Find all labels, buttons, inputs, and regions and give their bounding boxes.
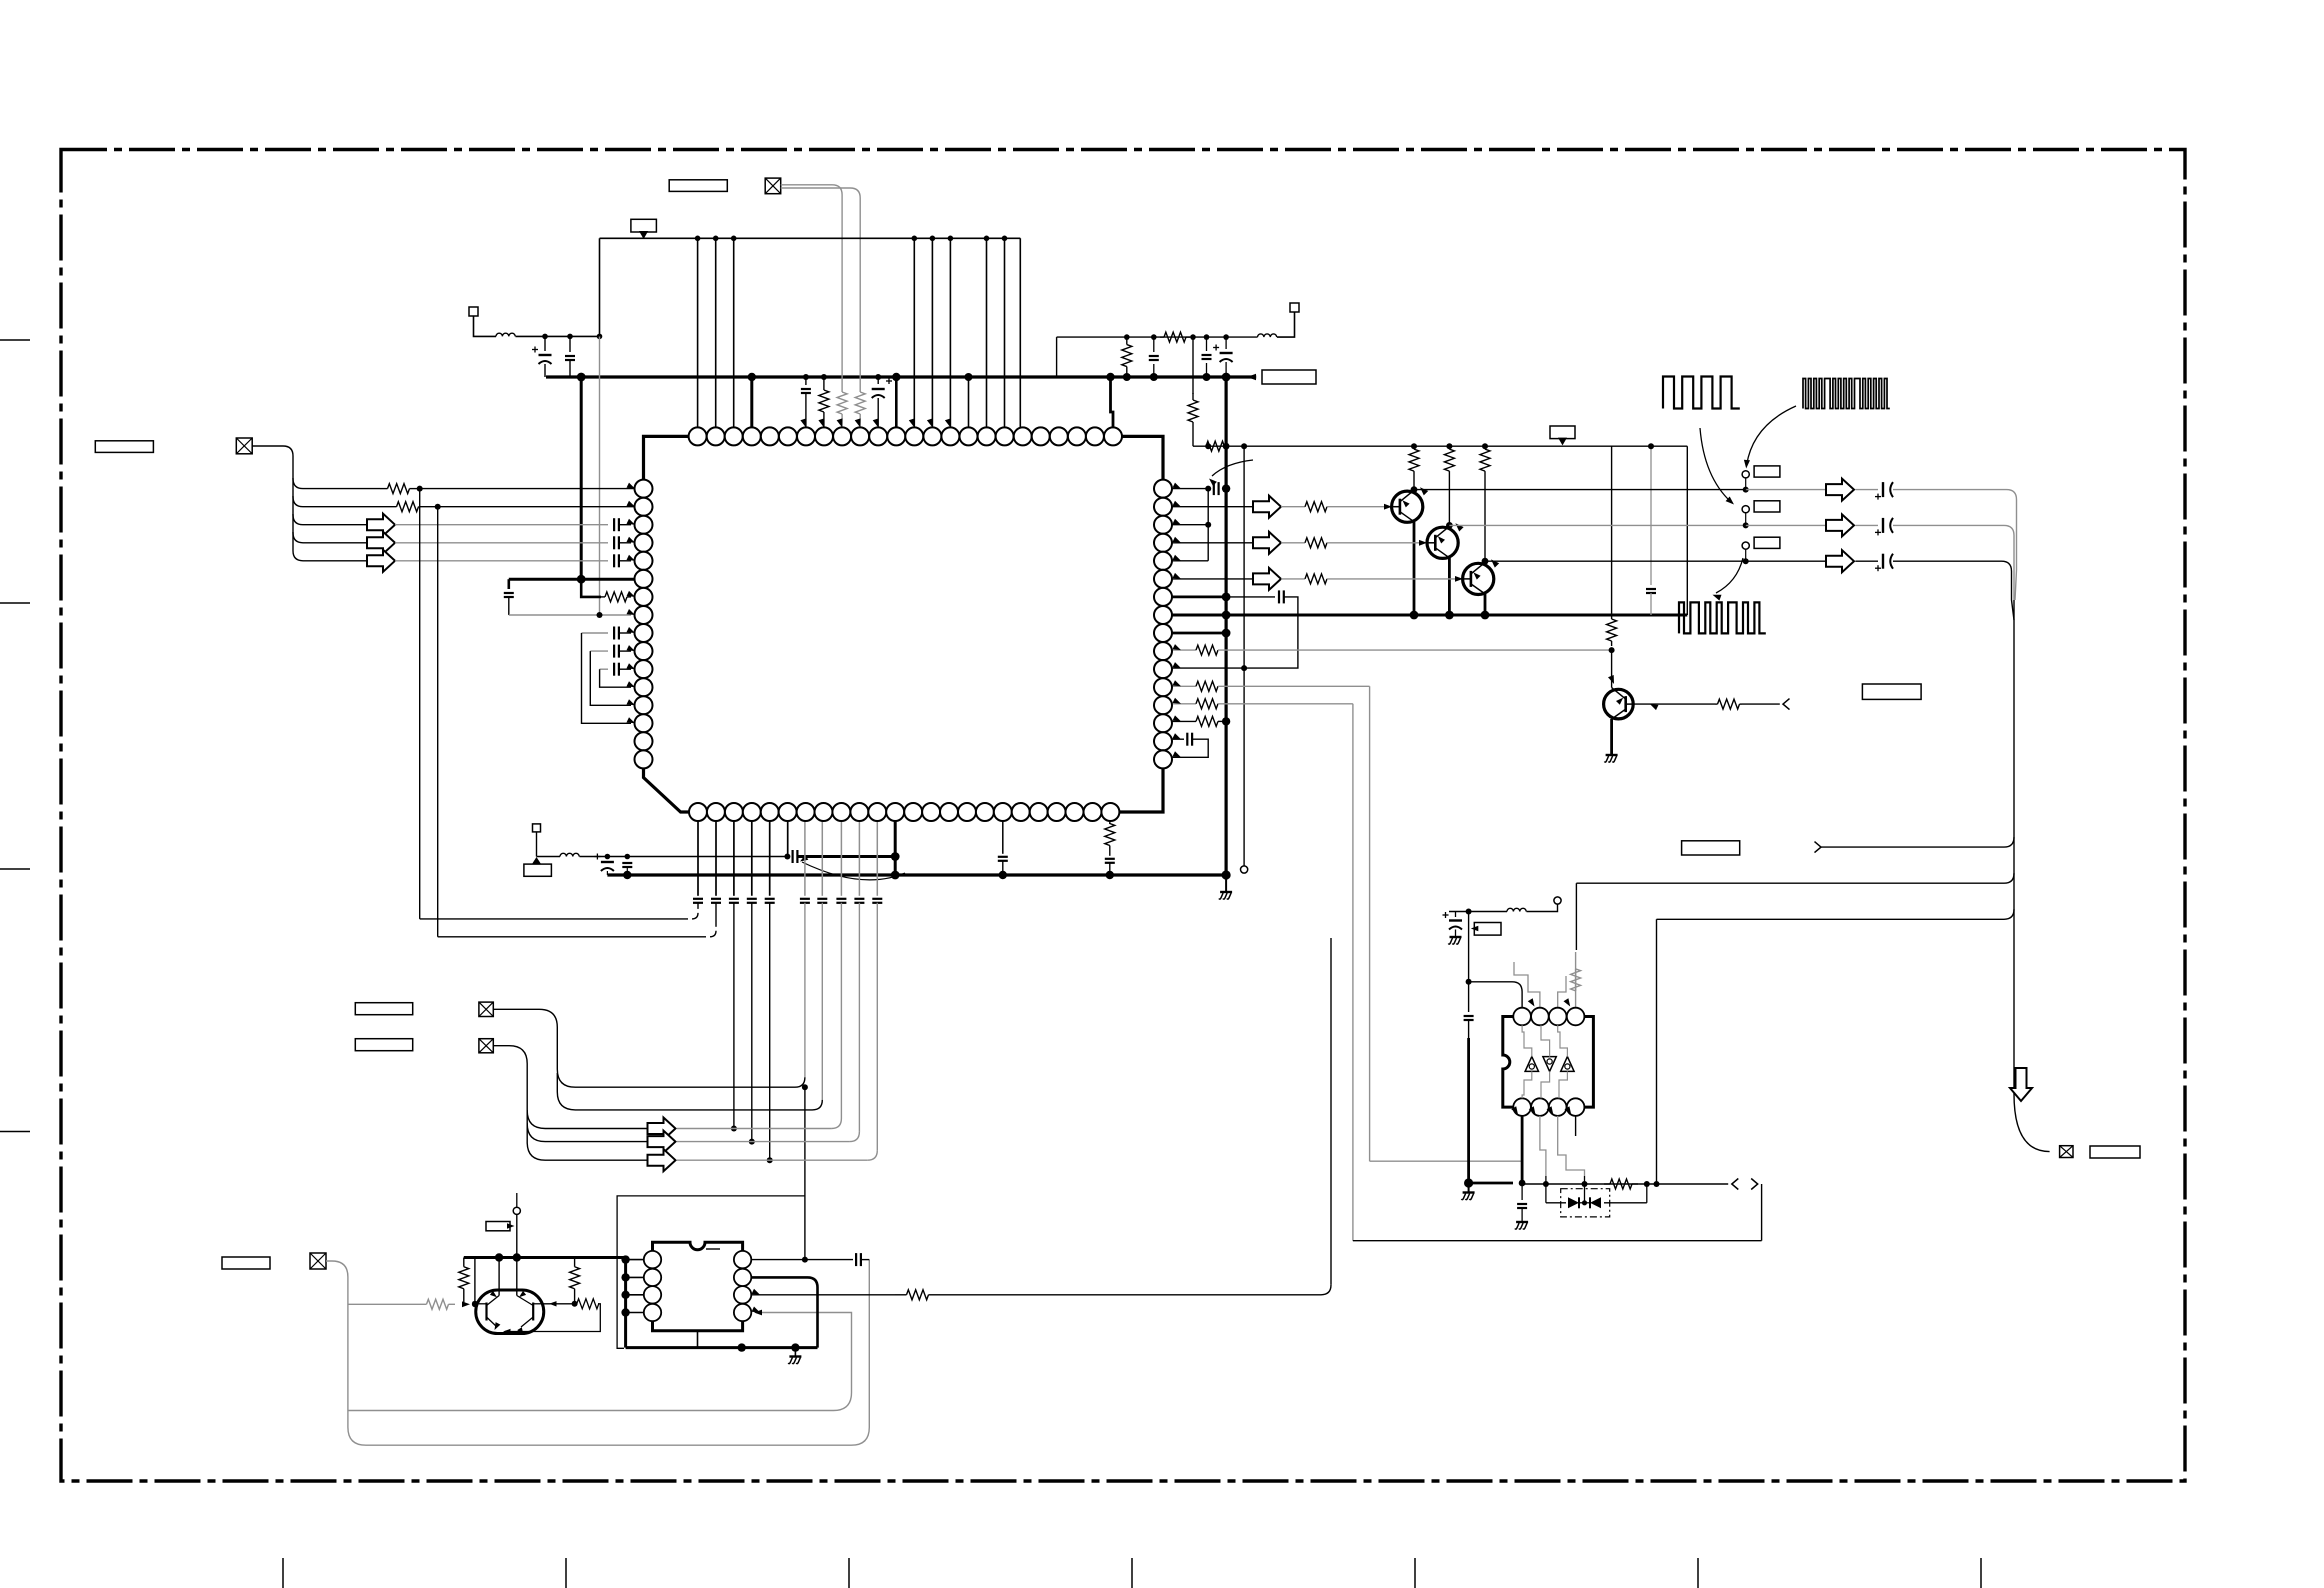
capacitor C35	[1468, 982, 1470, 1012]
wire CN3 vertical to block	[804, 1087, 806, 1259]
resistor R7 p24	[1109, 821, 1111, 824]
resistor R16 pin10	[1172, 649, 1196, 651]
gray wire pin13 down	[1352, 704, 1354, 1241]
wire pin15-16 loop	[1172, 739, 1208, 757]
capacitor C9 pin9 loop	[582, 632, 609, 634]
junction dot rail R12	[1482, 443, 1488, 449]
thick wire C14 to p12	[797, 855, 895, 858]
wire CN2 trunk	[252, 446, 380, 489]
capacitor C6	[613, 536, 615, 549]
wire collector link Q3	[1484, 561, 1486, 562]
label box CN2	[95, 441, 153, 453]
junction dot C2	[567, 334, 573, 340]
thick gnd bus U2	[626, 1346, 818, 1349]
junction dot b5	[767, 1157, 773, 1163]
resistor R21 Q4 base	[1715, 703, 1718, 705]
resistor R25 osc left	[463, 1258, 465, 1267]
label box bus end	[1262, 370, 1316, 384]
inductor L4	[1258, 334, 1277, 337]
capacitor C38	[1153, 337, 1155, 352]
resistor R6 to pin7	[601, 596, 605, 598]
junction dot VREF p1	[695, 236, 701, 242]
label box VM	[1550, 426, 1575, 439]
left margin tick y603	[0, 602, 30, 604]
wire oval to R26 dot	[541, 1303, 575, 1305]
junction dot sig R	[1644, 1181, 1650, 1187]
waveform square FG	[1663, 377, 1740, 409]
label box CN6	[222, 1257, 270, 1269]
junction dot bus s2	[623, 871, 631, 879]
resistor R28	[895, 1294, 907, 1296]
junction dot tr2b	[1150, 373, 1158, 381]
U2 right pin 3	[734, 1286, 751, 1303]
junction dot VREF p13	[912, 236, 918, 242]
resistor R1 on CN1-a	[841, 382, 843, 392]
arrowhead into pin p10	[855, 418, 861, 427]
gray wire x599 down	[599, 336, 601, 615]
wire R12 to collector	[1484, 474, 1486, 561]
capacitor C8	[504, 592, 514, 594]
junction dot out1	[1743, 487, 1749, 493]
wire out2 to cap	[1855, 524, 1878, 526]
capacitor C2	[569, 336, 571, 352]
wire CN4 route	[493, 1046, 647, 1129]
net VREF horizontal	[600, 237, 1021, 239]
chassis ground C34	[1450, 936, 1462, 938]
capacitor C18	[747, 898, 757, 900]
gray wire bottom pin g9 down	[840, 821, 842, 896]
hall bottom pin 2	[1531, 1098, 1549, 1116]
wire diode left up	[1545, 1176, 1547, 1203]
gray wire hall pin2 top	[1514, 962, 1540, 1008]
emitter arrows Q5	[495, 1322, 501, 1330]
junction dot collector Q2	[1446, 522, 1453, 529]
transistor Q3	[1463, 563, 1494, 594]
elbow to connector CN5	[2014, 1094, 2050, 1152]
wire rail to Q4 branch	[1611, 446, 1613, 614]
wire T2 right	[537, 856, 561, 858]
test point circle hall	[1554, 897, 1561, 904]
junction dot VREF p15	[948, 236, 954, 242]
wire fan w2	[293, 478, 380, 507]
wire loop10-13	[590, 651, 631, 705]
connector CN6	[310, 1253, 326, 1269]
hall top pin 2	[1531, 1008, 1549, 1026]
wire top-right left drop	[1056, 337, 1058, 377]
diode D2	[1590, 1197, 1601, 1208]
capacitor C21	[817, 898, 827, 900]
thick pin bus U2	[624, 1258, 627, 1348]
line C run	[1657, 918, 2005, 920]
capacitor C15	[693, 898, 703, 900]
junction dot U2 gnd1	[738, 1343, 746, 1351]
capacitor C7	[613, 554, 615, 567]
bottom margin tick x283	[282, 1558, 284, 1588]
resistor R10	[1413, 446, 1415, 449]
capacitor C12 electrolytic	[606, 857, 608, 860]
open connector A	[1815, 842, 1822, 853]
junction dot R25	[472, 1301, 478, 1307]
U2 left pin 1	[644, 1251, 661, 1268]
junction dot pin14 bus	[1222, 717, 1230, 725]
wire pin6 base	[1172, 578, 1253, 580]
junction dot C27 rail	[1648, 443, 1654, 449]
diode D1	[1568, 1197, 1579, 1208]
terminal T3 square	[1290, 303, 1299, 312]
junction dot out3	[1743, 558, 1749, 564]
thick emitter bus	[1172, 614, 1687, 617]
wire fan w5	[293, 532, 367, 561]
junction dot branch	[472, 1301, 478, 1307]
junction dot C1	[542, 334, 548, 340]
U2 right pin 4	[734, 1304, 751, 1321]
capacitor C3	[805, 377, 807, 385]
wire U2 bottom stub	[697, 1331, 699, 1348]
oscillator shield loop	[617, 1196, 805, 1348]
gray wire line5	[677, 1159, 868, 1161]
wire R27 route	[505, 1304, 600, 1332]
test point stub 3	[1745, 549, 1747, 561]
wire out1 to cap	[1855, 489, 1878, 491]
left margin tick y1131	[0, 1131, 30, 1133]
resistor R11	[1448, 446, 1450, 449]
junction dot diodes	[1582, 1200, 1587, 1205]
junction dot b4	[749, 1139, 755, 1145]
wire U2 left pin 4	[626, 1312, 644, 1314]
transistor Q4	[1604, 689, 1634, 719]
chassis ground C36	[1516, 1221, 1528, 1223]
bottom margin tick x1415	[1414, 1558, 1416, 1588]
resistor R20 Q4	[1611, 614, 1613, 619]
junction dot U2 gnd2	[791, 1343, 799, 1351]
loop wire vertical	[1243, 446, 1245, 668]
U2 right pin 1	[734, 1251, 751, 1268]
block arrow out1	[1826, 479, 1854, 501]
label box CN4	[355, 1039, 412, 1051]
gray wire out1 right	[1893, 489, 2007, 491]
thick wire hall pin1 bottom	[1521, 1116, 1524, 1183]
wire bottom pin p18 down	[1002, 821, 1004, 854]
junction dot osc bus	[513, 1253, 521, 1261]
junction dot hall pin1b	[1519, 1180, 1526, 1187]
hall element 1	[1525, 1057, 1538, 1072]
junction dot Q4 base-node	[1609, 647, 1615, 653]
U2 right pin 2	[734, 1269, 751, 1286]
power bus VDD thick	[546, 375, 1256, 378]
wire line C down	[1656, 919, 1658, 1184]
junction dot rail R11	[1446, 443, 1452, 449]
dash-dot border frame	[61, 150, 2185, 1482]
resistor R23	[1604, 1183, 1610, 1185]
test point circle 1	[1742, 471, 1749, 478]
resistor R18 pin13	[1172, 703, 1196, 705]
ground bus thick	[607, 873, 1226, 876]
leader arrow ic-right	[1212, 460, 1253, 476]
block arrow out2	[1826, 514, 1854, 536]
junction dot tr1b	[1123, 373, 1131, 381]
label box tp3	[1754, 537, 1780, 548]
waveform PWM dense	[1803, 379, 1890, 409]
thick emitter Q2	[1448, 558, 1451, 615]
junction dot s2	[625, 854, 631, 860]
junction dot hall dist	[1466, 979, 1472, 985]
IC U1 left pin column	[635, 480, 653, 769]
wire w2 to pin	[438, 506, 635, 508]
resistor R2 on CN1-b	[859, 382, 861, 392]
test point circle 2	[1742, 506, 1749, 513]
arrowhead collector Q1	[1420, 487, 1428, 495]
capacitor C29	[1226, 596, 1275, 598]
wire fan w4	[293, 514, 367, 543]
hall top pin 3	[1549, 1008, 1567, 1026]
wire branch to Q5	[475, 1303, 478, 1305]
junction dot VREF p17	[984, 236, 990, 242]
wire Q5 c1 top	[498, 1258, 500, 1296]
gray wire bottom pin g11 down	[876, 821, 878, 896]
leader arrow wave1	[1700, 428, 1731, 502]
junction dot VREF p3	[731, 236, 737, 242]
wire T1 down-right	[474, 316, 497, 336]
junction dot tr4b	[1203, 373, 1211, 381]
junction dot tr3	[1190, 334, 1196, 340]
gray wire w3	[395, 524, 608, 526]
junction dot b3	[731, 1126, 737, 1132]
thick bus vertical	[1224, 377, 1227, 875]
arrowhead collector Q3	[1491, 559, 1499, 567]
junction dot collector Q3	[1482, 558, 1489, 565]
junction dot p4	[748, 373, 756, 381]
gray branch oscillator	[348, 1303, 420, 1305]
label box VCC	[631, 219, 657, 232]
thick emitter Q1	[1413, 522, 1416, 615]
test point stub 2	[1745, 513, 1747, 526]
transistor pair Q5 oval	[476, 1290, 544, 1334]
wire reset stub up	[516, 1193, 518, 1207]
junction dot emitter Q2	[1445, 611, 1454, 620]
wire R11 to collector	[1448, 474, 1450, 525]
wire Q4 base end	[1742, 703, 1780, 705]
wire line C join	[1646, 1184, 1648, 1203]
gray wire w4	[395, 542, 608, 544]
wire hall pin4 riser	[1575, 883, 1577, 950]
wire b2 left	[438, 936, 706, 938]
capacitor C4 electrolytic	[877, 377, 879, 384]
arrowhead into pin p9	[837, 418, 843, 427]
arrowhead Q4 top	[1608, 675, 1614, 684]
wire U2 left pin 2	[626, 1276, 644, 1278]
junction dot p12	[892, 373, 900, 381]
open connector Q4	[1783, 699, 1790, 710]
junction dot tr4	[1204, 334, 1210, 340]
thick supply bus osc	[464, 1256, 626, 1259]
wire rail right corner	[1686, 446, 1688, 615]
capacitor C39	[1206, 337, 1208, 351]
wire to hall pin1 top	[1469, 982, 1523, 1008]
capacitor C23	[854, 898, 864, 900]
gray staircase inner 3	[1559, 1071, 1567, 1098]
block arrow base1	[1253, 496, 1281, 518]
junction dot p11	[875, 374, 881, 380]
wire VREF to top pin p15	[949, 238, 951, 427]
bottom margin tick x1132	[1131, 1558, 1133, 1588]
junction dot w1	[417, 486, 423, 492]
gray wire CN1-b	[781, 188, 861, 382]
line B run	[1576, 882, 2004, 884]
resistor R24 branch	[420, 1303, 427, 1305]
output line 3	[1485, 560, 1746, 562]
wire T2 down	[536, 832, 538, 857]
junction dot series cap	[784, 854, 790, 860]
annotation arc	[802, 862, 905, 880]
U2 left pin 3	[644, 1286, 661, 1303]
gray wire w5	[395, 560, 608, 562]
gray wire hall pin3 top	[1558, 976, 1566, 1008]
IC U2 body	[653, 1242, 743, 1331]
wire CN3 route	[493, 1009, 805, 1087]
waveform pulses	[1679, 602, 1766, 633]
wire into diode box L	[1546, 1202, 1566, 1204]
resistor R5 fan w2	[380, 506, 397, 508]
left margin tick y340	[0, 339, 30, 341]
junction dot rail R10	[1411, 443, 1417, 449]
triangle T2	[532, 857, 541, 864]
junction dot pin1R	[802, 1257, 808, 1263]
leader arrow wave3	[1716, 558, 1743, 593]
wire loop9-14	[582, 633, 632, 723]
IC U1 top pin row	[689, 427, 1122, 445]
capacitor C17	[729, 898, 739, 900]
junction dot out2	[1743, 522, 1749, 528]
thick wire U2 pin2R	[751, 1277, 817, 1347]
junction dot sig M	[1582, 1181, 1588, 1187]
resistor R30 in line	[1160, 336, 1164, 338]
thick wire bus to node A	[580, 377, 583, 579]
junction dot p24top	[1106, 373, 1114, 381]
wire pin5 right	[1172, 560, 1208, 562]
capacitor C25	[998, 856, 1008, 858]
wire pin11	[1172, 667, 1244, 669]
junction dot pin1	[1205, 486, 1211, 492]
test point circle reset	[513, 1207, 520, 1214]
wire L1 to corner	[516, 335, 600, 337]
gray wire bottom pin g8 down	[821, 821, 823, 896]
capacitor C36	[1521, 1183, 1523, 1200]
inductor L1	[496, 333, 515, 336]
wire U2 pin1R	[751, 1259, 853, 1261]
arrowhead hall pin4	[1564, 998, 1571, 1006]
junction dot node A	[577, 575, 586, 584]
resistor R19 pin14	[1172, 720, 1196, 722]
capacitor C22	[836, 898, 846, 900]
capacitor C5	[613, 518, 615, 531]
junction dot hall	[1466, 909, 1472, 915]
capacitor C40 electrolytic	[1225, 337, 1227, 349]
junction dot tr5	[1223, 334, 1229, 340]
block arrow in w5	[367, 550, 395, 572]
junction dot p7	[803, 374, 809, 380]
inductor L3	[1507, 908, 1526, 911]
capacitor C32 electrolytic	[1882, 518, 1884, 533]
junction dot x599	[597, 334, 603, 340]
wire hall pin4 bottom	[1575, 1116, 1577, 1136]
resistor R26 osc right	[574, 1258, 576, 1267]
thick wire node A down	[581, 579, 601, 597]
terminal T2 square	[533, 824, 541, 832]
resistor R29	[1126, 337, 1128, 344]
wire bottom pin b2 down	[715, 821, 717, 896]
junction dot p12col	[891, 852, 900, 861]
bottom margin tick x849	[848, 1558, 850, 1588]
junction dot pin3	[1205, 522, 1211, 528]
thick wire bus to top pin p4	[750, 377, 753, 427]
junction dot collector Q1	[1411, 486, 1418, 493]
wire diode center	[1579, 1202, 1590, 1204]
hall top pin 1	[1513, 1008, 1531, 1026]
wire T3 down-left	[1277, 312, 1295, 337]
label box CN5	[2090, 1146, 2140, 1158]
label box T2	[524, 864, 552, 876]
wire VREF left drop	[599, 238, 601, 336]
gray staircase top 1	[1522, 1025, 1532, 1056]
gray staircase inner 1	[1522, 1071, 1532, 1098]
arrowhead into top pin p14	[927, 418, 933, 427]
junction dot VREF p18	[1002, 236, 1008, 242]
gray wire pin12 down	[1369, 686, 1371, 1161]
wire bus to base dot	[474, 1258, 476, 1304]
thick wire bus to top pin p12	[895, 377, 898, 427]
wire pin135 vertical	[1207, 489, 1209, 561]
gray staircase top 3	[1558, 1025, 1568, 1056]
label box line A	[1682, 841, 1740, 855]
gray staircase top 2	[1541, 1025, 1550, 1056]
label box tp1	[1754, 466, 1780, 477]
IC U1 right pin column	[1154, 480, 1172, 769]
wire Q4 base right	[1633, 703, 1715, 705]
junction dot emitter Q3	[1481, 611, 1490, 620]
capacitor C33 electrolytic	[1882, 554, 1884, 569]
resistor R14	[1281, 542, 1305, 544]
wire diode mid up	[1584, 1176, 1586, 1203]
thick wire bottom pin p12 down	[894, 821, 897, 875]
thick wire pin9	[1172, 632, 1226, 635]
hall IC body	[1503, 1017, 1594, 1108]
junction dot sig C	[1654, 1181, 1660, 1187]
gray wire line3	[677, 1128, 832, 1130]
junction dot s1	[605, 854, 611, 860]
block arrow line5	[648, 1149, 676, 1171]
junction dot on gray	[597, 612, 603, 618]
wire Q5 c2 top	[516, 1258, 518, 1296]
VM triangle	[1558, 438, 1567, 446]
hall bottom pin 1	[1513, 1098, 1531, 1116]
chassis ground hall	[1468, 1183, 1470, 1192]
capacitor C28	[1213, 482, 1215, 495]
junction dot Q5 top	[495, 1253, 503, 1261]
wire L3 left	[1449, 911, 1507, 913]
junction dot U2 bus 2	[621, 1273, 629, 1281]
wire collector link Q2	[1448, 524, 1450, 527]
VCC triangle	[639, 231, 648, 239]
U2 left pin 2	[644, 1269, 661, 1286]
tap arc line A	[2004, 837, 2014, 847]
wire pin4 base	[1172, 542, 1253, 544]
wire L2 right	[580, 856, 788, 858]
capacitor C37	[855, 1253, 857, 1266]
arrowhead bus end	[1247, 374, 1256, 380]
resistor R3	[823, 378, 825, 390]
wire to Q4	[1611, 650, 1613, 688]
IC U1 bottom pin row	[689, 803, 1119, 821]
